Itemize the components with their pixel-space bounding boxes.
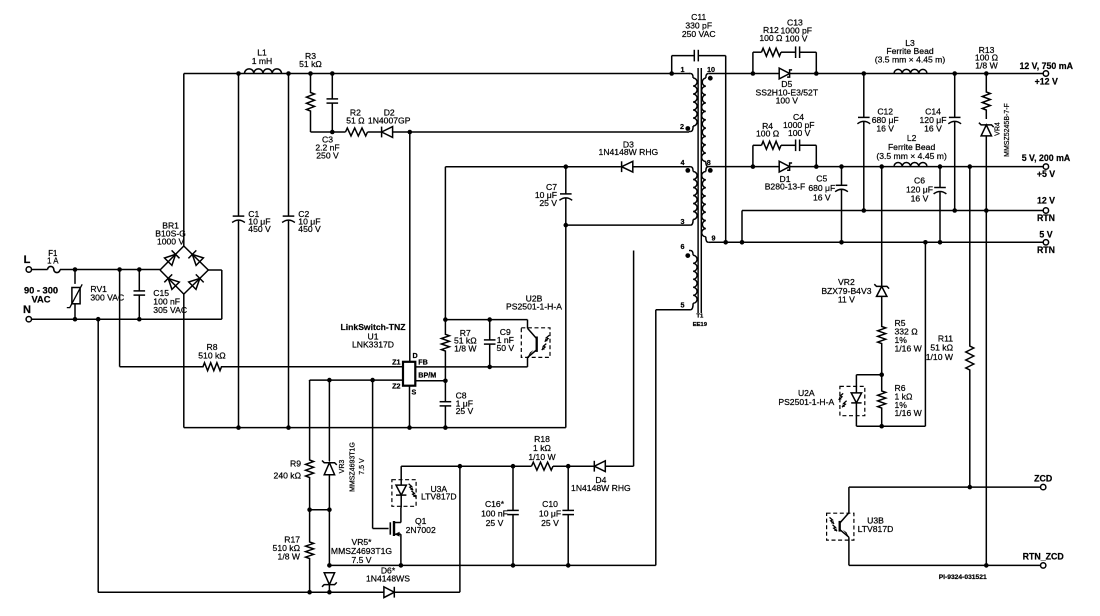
wire L line [75,269,160,271]
capacitor C1 [238,74,240,217]
wire RTN_ZCD line [849,564,1043,566]
svg-text:ZCD: ZCD [1034,473,1052,483]
capacitor C16 [512,466,514,510]
junction RTN tie [740,240,745,245]
svg-text:C16*: C16* [485,499,505,509]
svg-text:VR3: VR3 [339,460,346,474]
junction R3 top [308,71,313,76]
diode D4 [594,461,605,472]
svg-text:450 V: 450 V [248,224,271,234]
junction C9 top [487,317,492,322]
wire Q1 source line [329,564,655,566]
optocoupler U2A LED [856,374,881,376]
junction C14 top [952,71,957,76]
svg-text:10 μF: 10 μF [539,508,561,518]
svg-text:MMSZ4693T1G: MMSZ4693T1G [349,442,356,492]
snubber R4 [752,145,754,166]
inductor L3 ferrite bead [894,69,927,73]
wire N bottom riser [97,319,99,592]
junction C5 top [839,164,844,169]
svg-text:5: 5 [681,301,685,310]
svg-text:100 V: 100 V [776,96,799,106]
junction C15 top [137,267,142,272]
terminal 12V RTN [1043,208,1048,213]
svg-text:6: 6 [681,242,685,251]
svg-text:2: 2 [680,122,684,131]
wire BPM line [415,380,445,382]
wire source rail [184,427,566,429]
junction C14 bottom [952,208,957,213]
svg-text:LTV817D: LTV817D [858,524,894,534]
capacitor C3 [331,74,333,99]
resistor R9 [309,379,311,382]
svg-text:1 mH: 1 mH [252,56,273,66]
capacitor C5 [841,167,843,186]
svg-text:305 VAC: 305 VAC [153,305,187,315]
optocoupler U3B [827,513,854,540]
junction R7 top [443,317,448,322]
capacitor C12 [863,74,865,118]
svg-text:N: N [23,304,31,316]
svg-text:250 VAC: 250 VAC [682,29,716,39]
wire bridge right to N riser [208,269,222,271]
wire R18 to D4 [553,465,594,467]
svg-text:16 V: 16 V [813,192,831,202]
junction VR3 bottom [327,507,332,512]
svg-text:240 kΩ: 240 kΩ [274,470,302,480]
wire U2A bottom [856,425,925,427]
transformer secondary winding 8-9 [706,167,709,172]
svg-text:VR4: VR4 [994,122,1001,136]
terminal 5V [1043,164,1048,169]
resistor R18 [532,462,554,470]
capacitor C2 [288,74,290,217]
junction VR5 node [327,563,332,568]
svg-text:1/16 W: 1/16 W [895,343,923,353]
capacitor C15 [138,270,140,291]
junction C2 bottom [286,425,291,430]
wire ZCD line [849,486,1043,488]
junction C1 top [236,71,241,76]
svg-text:VAC: VAC [32,295,51,305]
junction C7 top [564,164,569,169]
junction D6 riser top [458,464,463,469]
junction C15 bottom [137,317,142,322]
transformer T1 core [697,68,699,313]
wire D6 out [394,591,460,593]
zener VR4 [981,125,991,136]
svg-text:1/10 W: 1/10 W [528,452,556,462]
wire pin5 riser [655,310,657,566]
junction C6 bottom [938,240,943,245]
svg-text:16 V: 16 V [876,124,894,134]
snubber C4 [781,144,796,146]
svg-text:1/10 W: 1/10 W [926,352,954,362]
capacitor C9 [489,320,491,340]
terminal 5V RTN [1043,240,1048,245]
junction VR5 bottom [327,590,332,595]
svg-text:16 V: 16 V [911,194,929,204]
svg-text:1: 1 [681,65,685,74]
transformer zcd winding 6-5 [689,250,691,252]
junction R13 top [984,71,989,76]
junction Q1 gate tap [370,378,375,383]
wire Q1 gate riser [372,380,374,528]
wire RTN tie [741,211,743,243]
junction snubber12 right [814,71,819,76]
wire U1 source [409,386,411,428]
svg-text:100 V: 100 V [785,33,808,43]
junction VR2 chain top [879,164,884,169]
varistor RV1 [74,270,76,284]
svg-text:250 V: 250 V [316,151,339,161]
svg-text:12 V, 750 mA: 12 V, 750 mA [1019,61,1073,71]
wire drain riser [409,132,411,362]
capacitor C10 [567,466,569,510]
junction C16 bottom [511,563,516,568]
wire R8 drop [119,270,121,367]
junction C2 top [286,71,291,76]
junction RTN_ZCD [984,563,989,568]
svg-text:S: S [412,388,417,397]
junction ZCD riser top [968,164,973,169]
transistor Q1 2N7002 [389,522,391,534]
svg-text:100 nF: 100 nF [481,508,508,518]
capacitor C14 [954,74,956,118]
capacitor C11 [671,56,673,74]
fuse F1 [32,269,48,271]
junction C11 right [723,240,728,245]
transformer primary winding 1-2 [689,73,691,75]
junction C16 top [511,464,516,469]
svg-text:5 V: 5 V [1039,230,1052,240]
svg-text:51 Ω: 51 Ω [346,116,365,126]
svg-text:1N4148WS: 1N4148WS [366,574,410,584]
junction R6 bottom [879,424,884,429]
svg-text:Z1: Z1 [392,358,400,367]
wire Z2 line [310,379,403,381]
svg-text:25 V: 25 V [539,198,557,208]
wire D4 to pin6 [605,465,633,467]
svg-text:C10: C10 [542,499,558,509]
terminal L [26,267,31,272]
svg-text:RTN: RTN [1037,245,1055,255]
junction Q1 source [399,563,404,568]
svg-text:L: L [24,254,31,266]
terminal 12V [1043,71,1048,76]
resistor R5 [878,296,886,374]
svg-text:RTN_ZCD: RTN_ZCD [1023,552,1064,562]
svg-text:B280-13-F: B280-13-F [765,181,806,191]
junction C12 top [862,71,867,76]
zener VR2 [881,167,883,287]
junction RV1 top [73,267,78,272]
svg-text:3: 3 [681,217,685,226]
svg-text:1/8 W: 1/8 W [278,552,301,562]
wire ZCD riser [969,167,971,345]
resistor R17 [306,510,314,593]
junction U2A branch [879,372,884,377]
wire VR5 drop [328,510,330,566]
svg-text:1/8 W: 1/8 W [454,343,477,353]
svg-text:LTV817D: LTV817D [421,492,457,502]
transformer bias winding 4-3 [689,166,691,168]
svg-text:1/16 W: 1/16 W [895,408,923,418]
diode D5 [779,68,789,79]
svg-text:1/8 W: 1/8 W [975,60,998,70]
svg-text:16 V: 16 V [924,124,942,134]
zener VR3 [328,380,330,461]
terminal ZCD [1041,484,1046,489]
IC U1 LNK3317D [403,362,415,386]
snubber C13 [781,51,796,53]
svg-text:2N7002: 2N7002 [406,525,436,535]
svg-text:100 V: 100 V [788,128,811,138]
svg-text:25 V: 25 V [456,406,474,416]
svg-text:12 V: 12 V [1037,195,1055,205]
terminal N [26,317,31,322]
svg-text:PS2501-1-H-A: PS2501-1-H-A [778,397,834,407]
capacitor C6 [939,167,941,188]
junction snubber5 left [751,164,756,169]
svg-text:100 Ω: 100 Ω [759,33,783,43]
wire RTN_ZCD vert [985,211,987,566]
svg-text:BP/M: BP/M [418,370,436,379]
svg-text:7.5 V: 7.5 V [359,458,366,475]
svg-text:1000 V: 1000 V [157,237,185,247]
svg-text:9: 9 [712,233,716,242]
svg-text:R9: R9 [290,458,301,468]
diode D3 [622,161,633,172]
svg-text:11 V: 11 V [838,294,855,304]
wire bridge top riser [183,74,185,247]
junction U2A return [923,240,928,245]
svg-text:Z2: Z2 [392,382,400,391]
capacitor C8 [444,381,446,402]
wire FB line [415,366,527,368]
inductor L1 [245,69,282,74]
junction snubber5 right [814,164,819,169]
junction R8 tap [117,267,122,272]
junction VR4 bottom [984,208,989,213]
svg-text:T1: T1 [696,313,704,319]
svg-text:450 V: 450 V [298,224,321,234]
bridge rectifier BR1 [160,246,208,294]
inductor L2 ferrite bead [894,162,927,166]
junction C6 top [938,164,943,169]
wire 5V RTN [711,241,1043,243]
transformer secondary winding 10-8 [708,73,711,75]
svg-text:LNK3317D: LNK3317D [352,340,394,350]
svg-text:1N4148W RHG: 1N4148W RHG [599,147,659,157]
junction N drop [96,317,101,322]
resistor R2 [346,128,368,136]
junction C1 bottom [236,425,241,430]
svg-text:50 V: 50 V [496,343,514,353]
svg-text:PI-9324-031521: PI-9324-031521 [939,574,987,581]
resistor R6 [878,375,886,427]
snubber R12 [752,52,754,73]
svg-text:510 kΩ: 510 kΩ [198,351,226,361]
junction C5 bottom [839,240,844,245]
wire clamp node [311,131,346,133]
svg-text:(3.5 mm × 4.45 m): (3.5 mm × 4.45 m) [876,151,947,161]
junction C10 top [566,464,571,469]
wire D5 out [790,73,1044,75]
svg-text:1 A: 1 A [47,257,59,266]
resistor R13 [982,74,990,120]
resistor R11 [966,345,974,487]
resistor R8 [120,363,403,371]
wire bias drop [444,167,446,320]
wire D1 out [790,166,1044,168]
svg-text:5 V, 200 mA: 5 V, 200 mA [1022,153,1071,163]
diode D2 [382,127,393,138]
wire R2 to D2 [368,131,382,133]
wire N line [32,318,222,320]
terminal RTN_ZCD [1041,563,1046,568]
wire D2 to pin2 [393,131,689,133]
svg-text:1N4148W RHG: 1N4148W RHG [571,483,631,493]
wire bridge bottom riser [183,294,185,428]
wire bottom rail left [98,591,384,593]
svg-text:10: 10 [707,65,715,74]
wire pin3 line [566,224,689,226]
resistor R7 [441,320,449,381]
wire R18 line [400,465,402,467]
svg-text:+12 V: +12 V [1035,77,1058,87]
junction C10 bottom [566,563,571,568]
junction C11 left [669,71,674,76]
svg-text:25 V: 25 V [486,518,504,528]
wire U2B top [445,319,527,321]
diode D6 [384,587,394,598]
junction C3 top [330,71,335,76]
svg-text:100 Ω: 100 Ω [756,129,780,139]
svg-text:25 V: 25 V [541,518,559,528]
junction R9 bottom [307,507,312,512]
diode D1 [779,161,789,172]
junction BP/M node [443,379,448,384]
svg-text:PS2501-1-H-A: PS2501-1-H-A [506,302,562,312]
zener VR5 [324,573,334,585]
optocoupler U3A LED [400,466,402,480]
wire U2A return riser [924,242,926,426]
svg-text:8: 8 [707,158,711,167]
junction ZCD node [968,485,973,490]
junction VR3 top [327,378,332,383]
svg-text:D: D [413,351,418,360]
junction snubber12 left [751,71,756,76]
junction C7 bottom [564,223,569,228]
wire R9-VR3 tie [310,509,330,511]
wire D3 to pin4 [633,166,689,168]
svg-text:+5 V: +5 V [1037,169,1055,179]
junction R17 bottom [307,590,312,595]
junction C12 bottom [862,208,867,213]
svg-text:1N4007GP: 1N4007GP [368,116,411,126]
wire top rail [184,73,690,75]
capacitor C7 [565,167,567,194]
svg-text:51 kΩ: 51 kΩ [299,59,322,69]
svg-text:RTN: RTN [1037,213,1055,223]
svg-text:7.5 V: 7.5 V [351,555,371,565]
junction drain tap [408,130,413,135]
svg-text:4: 4 [681,158,685,167]
wire bias line [445,166,620,168]
wire pin8 line [711,166,779,168]
wire pin10 line [711,73,779,75]
svg-text:(3.5 mm × 4.45 m): (3.5 mm × 4.45 m) [875,54,946,64]
junction S rail [407,425,412,430]
svg-text:MMSZ5245B-7-F: MMSZ5245B-7-F [1004,103,1011,157]
svg-text:FB: FB [418,358,428,367]
svg-text:EE19: EE19 [693,322,708,328]
junction C3 bottom [330,130,335,135]
junction C8 bottom [443,425,448,430]
junction RV1 bottom [73,317,78,322]
wire 12V RTN [742,210,1043,212]
junction C9 bottom [487,365,492,370]
resistor R3 [307,74,315,133]
